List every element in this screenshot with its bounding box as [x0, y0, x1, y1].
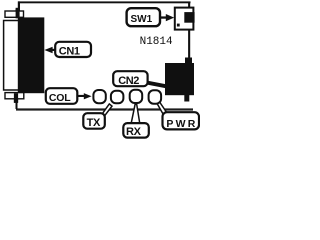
screw shaft top over tab — [16, 9, 20, 18]
svg-text:PWR: PWR — [166, 118, 197, 130]
wire left vertical at top-left corner — [18, 1, 20, 11]
LED COL indicator — [93, 90, 105, 103]
screw shaft bottom (connector CN1 lock post) — [14, 93, 18, 103]
label CN1 callout arrow — [44, 47, 57, 53]
switch SW1 label callout arrow — [159, 14, 174, 21]
screw shaft top (connector CN1 lock post) — [16, 8, 20, 18]
wire stub above connector CN2 — [185, 58, 192, 65]
label CN1 box — [55, 42, 91, 58]
label SW1 box — [127, 8, 160, 26]
switch SW1 detail dot — [177, 24, 180, 27]
svg-text:CN1: CN1 — [59, 46, 80, 58]
label TX box — [83, 113, 105, 129]
wire top edge of unit — [18, 1, 191, 3]
connector CN1 flange (DB25 face plate) — [4, 21, 20, 91]
label COL box — [46, 88, 78, 104]
connector CN2 body (black power jack) — [165, 63, 194, 95]
label CN2 box — [113, 71, 147, 87]
label COL callout arrow — [77, 93, 92, 99]
wire stub below connector CN2 — [184, 95, 189, 102]
screw shaft bottom over tab — [14, 93, 18, 103]
screw tab bottom (thumbscrew bar) — [5, 93, 24, 99]
label PWR box — [163, 112, 200, 130]
wire bottom edge of unit — [16, 108, 193, 110]
label TX pointer to LED — [102, 104, 112, 116]
LED RX indicator — [130, 90, 143, 103]
label RX box — [123, 123, 149, 138]
svg-text:TX: TX — [87, 117, 101, 129]
wire right edge of unit — [188, 3, 190, 59]
switch SW1 body — [175, 8, 194, 30]
label PWR pointer to LED — [157, 103, 167, 114]
svg-text:COL: COL — [49, 92, 71, 104]
switch SW1 actuator (black square) — [184, 12, 194, 23]
svg-text:SW1: SW1 — [131, 14, 153, 25]
label CN2 pointer line to connector — [147, 81, 167, 89]
LED TX indicator — [111, 91, 124, 104]
svg-text:CN2: CN2 — [118, 75, 139, 87]
screw tab top (thumbscrew bar) — [5, 11, 24, 17]
LED PWR indicator — [149, 90, 162, 103]
label RX pointer to LED — [131, 104, 140, 124]
svg-text:RX: RX — [126, 126, 142, 138]
connector CN1 body (black shroud) — [18, 17, 45, 93]
svg-text:N1814: N1814 — [140, 36, 173, 48]
wire left vertical to bottom edge — [16, 101, 18, 109]
